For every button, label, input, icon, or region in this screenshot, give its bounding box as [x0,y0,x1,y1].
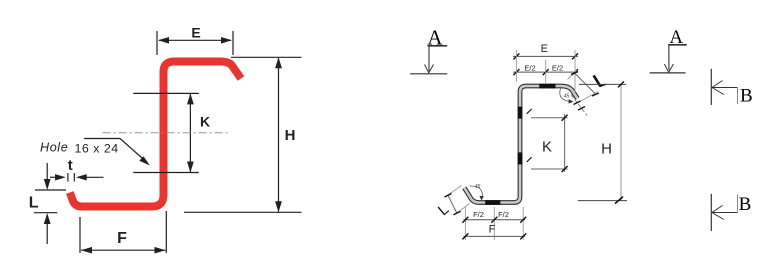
svg-text:K: K [200,114,210,130]
extension line F left [464,206,466,240]
web tick lower [527,157,532,162]
dimension H arrow top [275,57,282,68]
dimension E arrow right [221,37,232,44]
lip dimension tick upper [571,72,578,75]
svg-text:F/2: F/2 [473,210,484,219]
dimension K cad tick bottom [562,166,568,172]
svg-text:L: L [435,201,452,219]
dimension t left line [50,176,56,178]
dimension t tick left [67,173,69,182]
lip thickness tick 1 [574,101,581,105]
weld mark web upper [518,107,523,119]
extension line E left [515,50,517,82]
angle arc bottom arrow [479,196,483,201]
dimension F cad line [464,235,526,237]
dimension L upper line [46,163,48,181]
dimension L cad tick upper [445,194,452,198]
dimension H bottom reference line [184,211,302,213]
svg-text:B: B [739,194,752,215]
dimension H top reference line [231,56,302,58]
section marker B bottom trace [710,194,712,231]
dimension E cad line [513,55,578,57]
dimension K arrow top [187,93,194,104]
dimension E extension line right [232,31,234,55]
dimension E/2 tick right [572,69,578,75]
CAD Z-profile outline dark edge [464,86,577,203]
dimension L lower line [46,222,48,244]
section marker B top trace [710,69,712,105]
section marker A right stem [668,45,670,70]
svg-text:L: L [29,195,39,212]
dimension K cad line [564,114,566,172]
weld mark on bottom flange [485,200,500,205]
lip dimension extension lower [581,92,598,102]
dimension E/2 tick left [513,69,519,75]
dimension H cad line [620,84,622,200]
dimension H cad tick top [618,81,624,87]
dimension L cad extension lower [455,204,470,215]
dimension F arrow right [155,247,166,254]
lip dimension line top right [574,73,596,95]
dimension F cad tick right [520,233,526,239]
dimension L cad tick lower [454,211,461,215]
dimension t right line [86,176,104,178]
dimension L lower arrow [44,213,51,224]
dimension F line [81,249,166,251]
weld mark on top flange [539,84,555,89]
hole leader arrowhead [139,156,150,165]
svg-text:16 x 24: 16 x 24 [75,142,119,156]
dimension H cad tick bottom [615,197,623,204]
thick slash mark on H reference [594,75,601,86]
dimension K line [189,94,191,172]
svg-text:E/2: E/2 [552,64,563,73]
dimension F extension line right [165,211,167,253]
extension line E right [574,50,576,92]
dimension F extension line left [79,217,81,253]
dimension L bottom reference line [34,212,57,214]
section marker B top arrow [712,81,724,95]
section marker B top stem [711,87,737,89]
dimension t left arrow [55,174,66,180]
dimension F cad tick left [462,233,468,239]
hole centre dash-dot line [103,132,231,134]
section marker A right trace [650,72,686,74]
svg-text:45: 45 [475,184,481,190]
CAD Z-profile grey body [464,86,577,203]
svg-text:F: F [489,224,496,236]
dimension K arrow bottom [187,162,194,173]
dimension E/2 tick mid [543,69,549,75]
extension line E mid [545,60,547,83]
section marker A left trace [410,73,447,75]
dimension t tick right [73,173,75,182]
svg-text:E: E [541,43,548,55]
section marker B top drop [737,88,739,105]
lip thickness dashed line [571,95,587,116]
dimension E line [159,39,231,41]
angle arc bottom [470,186,483,199]
svg-text:t: t [68,157,73,174]
section marker A left underline [428,45,448,47]
dimension K cad bottom reference [531,168,568,170]
dimension K top reference line [133,92,199,94]
extension line F mid [493,207,495,240]
svg-text:F/2: F/2 [498,210,509,219]
lip thickness tick 2 [578,107,585,111]
svg-text:H: H [285,127,296,144]
section marker B bottom stem [711,212,737,214]
svg-text:45: 45 [564,94,570,100]
dimension K cad top reference [531,117,568,119]
dimension E arrow left [158,37,169,44]
section marker A right underline [668,44,687,46]
svg-text:E/2: E/2 [524,64,535,73]
weld mark web lower [518,152,523,164]
dimension F/2 tick mid [491,217,497,223]
web tick upper [527,109,532,114]
dimension F/2 tick right [520,217,526,223]
lip dimension extension upper [568,71,577,80]
dimension L upper arrow [44,179,51,190]
dimension F arrow left [81,247,92,254]
dimension K cad tick top [562,115,568,121]
dimension H cad bottom reference [578,200,627,202]
dimension H arrow bottom [275,201,282,212]
dimension F/2 tick left [462,217,468,223]
hole leader line [84,139,147,163]
dimension H line [278,58,280,212]
extension line F right [522,207,524,240]
lip dimension tick lower [592,93,599,96]
dimension K bottom reference line [133,172,199,174]
dimension H cad top reference [579,83,626,85]
dimension F/2 line [464,219,526,221]
svg-text:H: H [601,141,612,158]
dimension E cad tick left [513,53,519,59]
svg-text:Hole: Hole [40,141,68,155]
section marker B bottom riser [737,195,739,213]
dimension L top reference line [35,189,66,191]
dimension E cad tick right [572,53,578,59]
section marker A left stem [428,46,430,71]
angle arc top arrow [569,99,574,103]
section marker A right arrow [664,64,673,72]
red Z-profile section [70,62,241,207]
svg-text:F: F [117,230,127,247]
section marker A left arrow [425,65,434,73]
svg-text:B: B [740,85,753,106]
section marker B bottom arrow [712,206,724,220]
angle arc top [560,89,571,102]
svg-text:K: K [542,139,552,156]
dimension L cad extension upper [446,186,462,197]
dimension t right arrow [76,174,87,180]
svg-text:E: E [191,25,200,41]
dimension L cad line [448,195,457,213]
dimension E/2 line [513,71,578,73]
dimension E extension line left [156,31,158,55]
